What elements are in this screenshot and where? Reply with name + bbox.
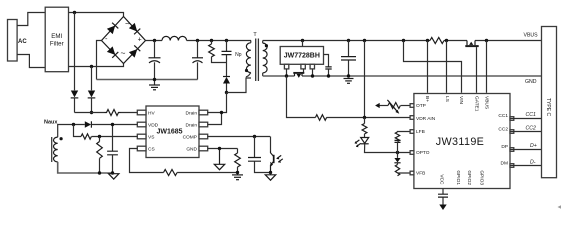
positive rail after bridge [146, 40, 163, 42]
capacitor C COMP [248, 137, 271, 173]
SR mosfet Q1 [293, 73, 304, 78]
wire vcc pin to cap [324, 55, 329, 67]
bridge rectifier BD1 [102, 17, 146, 64]
svg-text:GND: GND [525, 79, 537, 85]
capacitor C 7728 [325, 67, 331, 69]
node B+ [426, 39, 429, 42]
capacitor C2 bulk electrolytic [192, 41, 203, 80]
node snubber R top [210, 39, 213, 42]
svg-text:VIN: VIN [458, 96, 464, 105]
mosfet Q2 load switch [465, 41, 478, 47]
resistor R HV [105, 110, 121, 116]
svg-text:D-: D- [530, 159, 536, 165]
node SR left [285, 74, 288, 77]
aux winding Naux [44, 119, 63, 162]
svg-text:CC2: CC2 [498, 127, 508, 133]
diode D VFB [394, 153, 400, 165]
node GND pin [218, 147, 221, 150]
svg-text:TYPE C: TYPE C [545, 98, 551, 116]
svg-text:CC2: CC2 [526, 126, 536, 132]
wire CS pin [130, 149, 164, 173]
resistor R LFB [395, 132, 399, 142]
wire DP [510, 149, 542, 151]
JW1685 controller U1 [137, 106, 207, 158]
wire LFB [398, 131, 414, 133]
node output cap top [347, 39, 350, 42]
optocoupler phototransistor Q opto [270, 137, 283, 173]
wire VIN link [404, 41, 462, 93]
svg-text:VDD: VDD [148, 122, 159, 128]
svg-text:GPIO1: GPIO1 [455, 170, 461, 185]
svg-text:CC1: CC1 [526, 112, 536, 118]
wire LS [446, 41, 448, 93]
wire CC1 [510, 118, 542, 120]
svg-text:+: + [138, 36, 142, 43]
node COMP cap [253, 135, 256, 138]
node OPTO line [396, 151, 399, 154]
resistor R sense VBUS [430, 38, 444, 44]
node VDR feed [363, 39, 366, 42]
wire DM [510, 165, 542, 167]
svg-text:LS: LS [444, 96, 450, 102]
aux polarity dot [60, 137, 63, 140]
node cap2 top [196, 39, 199, 42]
wire AC to EMI bottom [17, 55, 45, 68]
JW7728BH sync rect U2 [280, 47, 323, 69]
capacitor C VDD [107, 125, 118, 174]
svg-text:GATE1: GATE1 [473, 96, 479, 112]
ground arrow VCC [439, 205, 446, 211]
svg-text:VDR AIN: VDR AIN [416, 116, 436, 122]
node CS gnd junction [236, 171, 239, 174]
wire gate to GATE1 [476, 47, 478, 93]
svg-text:Drain: Drain [186, 110, 198, 116]
node VBUS pin tap [485, 39, 488, 42]
EMI filter block [45, 7, 68, 72]
diode top-right [129, 23, 137, 32]
diode D1 from line to HV [71, 13, 79, 113]
JW3119E PD controller U3 [414, 94, 510, 189]
wire to HV pin [121, 112, 138, 114]
diode bottom-right [129, 49, 137, 58]
capacitor C snubber [222, 41, 232, 63]
capacitor C out [341, 41, 356, 77]
inductor L1 [162, 36, 187, 40]
ground triangle GND pin [214, 149, 224, 170]
opto LED D led [355, 138, 414, 153]
wire VS to pin [92, 136, 138, 138]
diode D snubber clamp [223, 63, 230, 93]
diode top-left [107, 26, 115, 35]
TYPE C connector J1 [542, 27, 557, 178]
svg-text:DM: DM [501, 161, 508, 167]
OTP thermistor network [375, 100, 414, 114]
wire CS to gnd node [177, 172, 237, 174]
secondary VBUS rail [263, 40, 542, 42]
svg-text:LFB: LFB [416, 129, 425, 135]
ground earth bars at C1 [149, 85, 160, 90]
capacitor C VCC [438, 189, 448, 211]
resistor R opto led [362, 124, 367, 134]
wire EMI to bridge bottom (neutral) [69, 64, 124, 67]
svg-text:COMP: COMP [183, 134, 197, 140]
node output cap bottom [347, 74, 350, 77]
node bottom AC line [90, 65, 93, 68]
node cap1 top [153, 39, 156, 42]
capacitor C1 bulk electrolytic [149, 41, 161, 85]
svg-text:HV: HV [148, 110, 155, 116]
resistor R VS lower [97, 137, 103, 174]
corner mark [558, 205, 561, 209]
wire GND pin [208, 148, 238, 150]
svg-text:JW7728BH: JW7728BH [284, 53, 320, 60]
svg-text:DP: DP [501, 144, 508, 150]
capacitor C LFB [397, 139, 399, 142]
svg-text:GPIO2: GPIO2 [466, 170, 472, 185]
svg-text:T: T [253, 32, 257, 38]
node top AC line [73, 11, 76, 14]
wire VBUS to VDR node [364, 41, 366, 119]
wire VS branch [74, 125, 82, 137]
node VDD cap top [111, 123, 114, 126]
wire right pin to gnd rail [312, 69, 314, 76]
light arrows [277, 155, 283, 162]
svg-text:VBUS: VBUS [524, 33, 539, 39]
secondary winding [263, 43, 267, 73]
svg-text:AC: AC [18, 39, 27, 45]
svg-text:OPTO: OPTO [416, 150, 430, 156]
svg-text:Filter: Filter [50, 41, 64, 48]
wire COMP [208, 136, 271, 138]
wire Drain pins to clamp [208, 93, 227, 113]
svg-text:VFB: VFB [416, 171, 425, 177]
node snubber C top [225, 39, 228, 42]
node drain clamp [225, 91, 228, 94]
node VS-R on rail [98, 171, 101, 174]
light arrows emitting [355, 140, 361, 147]
svg-text:CS: CS [148, 146, 155, 152]
resistor R GND [235, 149, 241, 175]
wire clamp to primary bottom [227, 78, 252, 93]
svg-text:Drain: Drain [186, 122, 198, 128]
resistor R VS upper [81, 134, 91, 139]
ground earth bars CS [232, 175, 243, 180]
node HV junction [90, 111, 93, 114]
svg-text:Np: Np [235, 52, 242, 58]
svg-text:VS: VS [148, 134, 154, 140]
svg-text:B+: B+ [424, 96, 430, 102]
wire HV line [75, 112, 105, 114]
wire rail to primary [187, 40, 251, 42]
ground triangle opto [265, 173, 275, 181]
svg-text:JW3119E: JW3119E [436, 136, 484, 148]
node VDD-C on rail [111, 171, 114, 174]
svg-text:EMI: EMI [51, 33, 62, 40]
node VS divider [98, 135, 101, 138]
transformer T [235, 32, 268, 81]
resistor R VFB [395, 165, 399, 176]
ground earth bars output [344, 79, 354, 84]
node SR right [311, 74, 314, 77]
wire AC to EMI top [17, 13, 45, 26]
diode D2 from neutral to HV [88, 67, 96, 113]
wire aux top [58, 125, 85, 138]
svg-text:~: ~ [121, 48, 126, 58]
primary winding Np [246, 43, 250, 73]
ground triangle aux [109, 174, 119, 179]
primary polarity dot [245, 69, 248, 72]
core [256, 39, 259, 82]
node C1 on negative rail [153, 78, 156, 81]
node VIN tap [402, 39, 405, 42]
wire left pin to gnd rail [286, 69, 288, 76]
aux ground rail [58, 162, 114, 173]
svg-text:~: ~ [125, 19, 130, 29]
svg-text:VBUS: VBUS [483, 96, 489, 109]
svg-text:CC1: CC1 [498, 113, 508, 119]
wire VBUS pin [486, 41, 488, 93]
svg-text:Naux: Naux [44, 119, 58, 125]
wire EMI to bridge top (line) [69, 13, 124, 17]
node SR VD [301, 39, 304, 42]
node opto emitter [269, 171, 272, 174]
node LS [445, 39, 448, 42]
output ground rail [263, 75, 542, 77]
AC source plug [8, 20, 28, 62]
node drain pins [220, 111, 223, 114]
wire VD pin to rail [302, 41, 304, 47]
svg-text:GPIO3: GPIO3 [479, 170, 485, 185]
diode D VDD [85, 121, 138, 127]
secondary polarity dot [265, 44, 268, 47]
resistor R snubber [209, 41, 227, 63]
diode bottom-left [107, 46, 115, 55]
node 7728 cap bottom [327, 74, 330, 77]
wire bridge minus to negative rail [97, 41, 102, 80]
wire VFB [398, 172, 414, 174]
svg-text:JW1685: JW1685 [157, 129, 183, 136]
pin stubs JW3119E [410, 104, 514, 175]
wire gate pin [303, 69, 305, 73]
svg-text:GND: GND [186, 146, 197, 152]
resistor R VDR [315, 115, 326, 121]
svg-text:VCC: VCC [438, 174, 444, 185]
wire secondary sense to VDR AIN [287, 76, 414, 118]
node VDR junction [363, 116, 366, 119]
primary negative rail [97, 79, 198, 81]
wire CC2 [510, 131, 542, 133]
resistor R CS [164, 170, 178, 176]
svg-text:OTP: OTP [416, 103, 426, 109]
node aux split [72, 123, 75, 126]
wire B+ [427, 41, 429, 93]
svg-text:D+: D+ [530, 143, 537, 149]
